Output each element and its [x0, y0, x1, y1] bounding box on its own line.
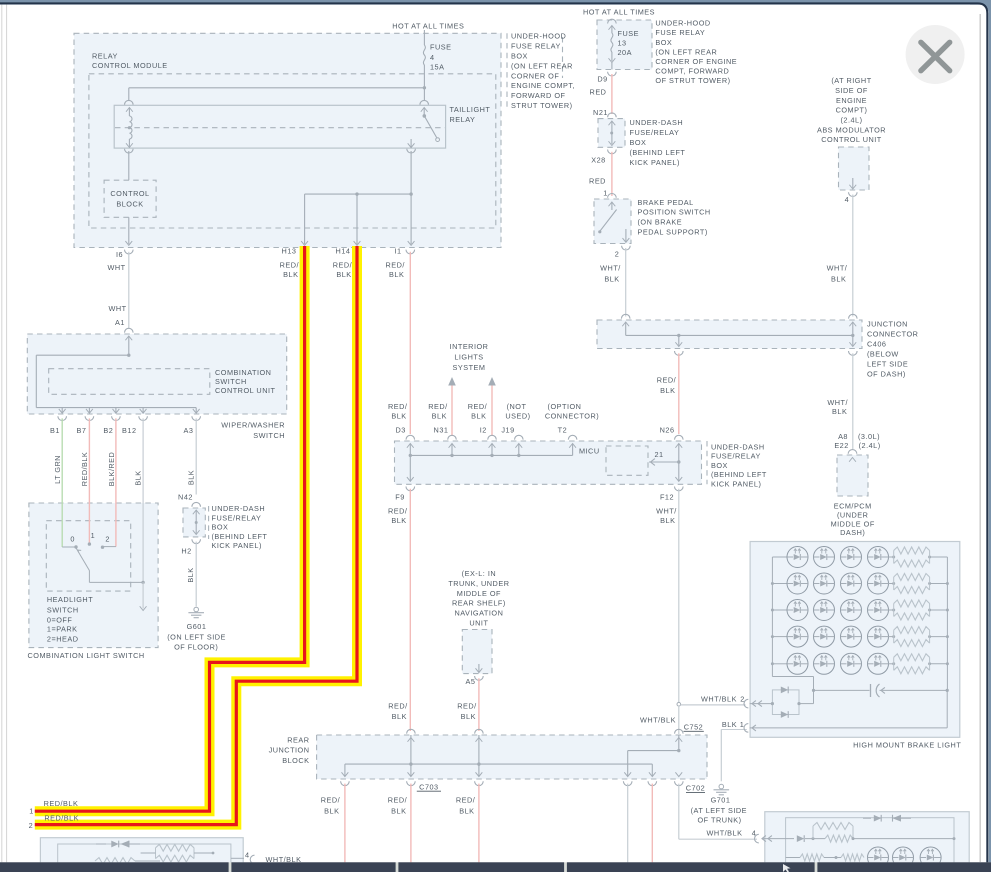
connector arc RJB left top — [407, 729, 416, 733]
svg-text:ENGINE COMPT,: ENGINE COMPT, — [511, 81, 575, 90]
pin label B12 — [122, 426, 136, 435]
label LT GRN — [53, 455, 62, 484]
entry 1 wiring — [721, 690, 947, 729]
junction dot RJB 1 — [409, 762, 412, 765]
svg-text:RED/: RED/ — [388, 702, 408, 711]
svg-text:REAR: REAR — [287, 736, 309, 745]
svg-text:J19: J19 — [501, 426, 514, 435]
label WHT/BLK 2 — [701, 695, 745, 704]
relay contact arm — [421, 108, 440, 142]
wire WHT/BLK ABS-C406 — [852, 195, 854, 317]
label INTERIOR LIGHTS SYSTEM — [450, 342, 489, 372]
wire WHT/BLK C406-ECM — [852, 353, 854, 449]
svg-text:(ON LEFT REAR: (ON LEFT REAR — [511, 61, 573, 70]
svg-text:1=PARK: 1=PARK — [47, 625, 78, 634]
svg-text:2: 2 — [615, 250, 620, 259]
label UNDER-HOOD FUSE RELAY BOX (left) — [511, 32, 575, 110]
pin label N42 — [178, 493, 193, 502]
label WHT (above A1) — [108, 304, 126, 313]
top background strip — [0, 0, 991, 5]
svg-text:WHT: WHT — [107, 263, 125, 272]
svg-text:CONTROL UNIT: CONTROL UNIT — [215, 386, 275, 395]
LED matrix rows — [772, 547, 893, 675]
svg-text:CORNER OF: CORNER OF — [511, 71, 559, 80]
label RED/BLK (H14) — [333, 261, 353, 279]
svg-text:H13: H13 — [282, 247, 297, 256]
svg-text:RED/: RED/ — [388, 506, 408, 515]
svg-text:13: 13 — [618, 39, 627, 48]
fuse F4 symbol — [423, 45, 425, 65]
label ECM/PCM (UNDER MIDDLE OF DASH) — [831, 502, 875, 538]
label WHT/BLK (ECM wire) — [827, 398, 848, 416]
label RED/BLK (F9) — [388, 506, 408, 525]
connector arc A1 — [125, 328, 134, 332]
svg-text:(ON BRAKE: (ON BRAKE — [638, 218, 683, 227]
ECM/PCM dashed box — [837, 455, 868, 496]
connector arc RJB bottom d — [623, 781, 632, 785]
connector arc H14 — [353, 250, 362, 254]
label G701 — [691, 796, 747, 825]
svg-text:BLK: BLK — [336, 270, 351, 279]
wire WHT/BLK 2 horizontal — [681, 704, 746, 706]
svg-text:FUSE/RELAY: FUSE/RELAY — [212, 513, 262, 522]
right background strip — [970, 0, 991, 872]
connector arc C406 N26 bottom — [675, 351, 684, 355]
wire BLK A3 — [195, 418, 197, 494]
entry 2 arrows — [752, 701, 762, 707]
junction dots interior bus — [409, 454, 521, 457]
pin label H13 — [282, 247, 297, 256]
svg-text:HEADLIGHT: HEADLIGHT — [47, 595, 93, 604]
label BRAKE PEDAL POSITION SWITCH — [638, 198, 711, 237]
label G601 — [167, 622, 226, 652]
pin label T2 — [558, 426, 568, 435]
tail lamp inner box — [58, 844, 231, 872]
svg-text:NAVIGATION: NAVIGATION — [454, 609, 503, 618]
svg-text:BLK: BLK — [391, 806, 406, 815]
svg-text:RELAY: RELAY — [450, 115, 476, 124]
wire coil to control block — [128, 151, 130, 180]
wire H13 inside module — [301, 194, 308, 245]
headlight switch wire 0 bend — [62, 546, 76, 548]
svg-text:BLK: BLK — [283, 270, 298, 279]
C406 N26 drop — [675, 335, 682, 346]
wire fuse to relay contact — [423, 88, 425, 100]
under-dash interior label separator — [706, 441, 708, 484]
label HIGH MOUNT BRAKE LIGHT — [853, 741, 961, 750]
pin label N21 — [593, 108, 608, 117]
headlight switch output wiring — [89, 581, 144, 584]
taillight relay box — [114, 105, 445, 148]
svg-text:C703: C703 — [419, 782, 438, 791]
svg-text:FUSE: FUSE — [430, 43, 451, 52]
A1 entry wire — [125, 336, 132, 355]
connector arc X28 — [608, 150, 617, 154]
svg-text:(3.0L): (3.0L) — [858, 432, 880, 441]
wire WHT/BLK brake-C406 — [625, 248, 627, 317]
tail lamp exit 4 — [231, 855, 255, 864]
connector arc brake switch pin2 — [622, 246, 631, 250]
svg-text:H2: H2 — [181, 546, 191, 555]
svg-text:(2.4L): (2.4L) — [859, 441, 881, 450]
connector arc RJB mid top — [475, 729, 484, 733]
rear junction block dashed box — [317, 735, 707, 779]
svg-text:LEFT SIDE: LEFT SIDE — [867, 360, 908, 369]
tail lamp BR row2 — [786, 854, 864, 861]
svg-text:RED/: RED/ — [428, 402, 448, 411]
headlight switch inner dashed box — [46, 521, 130, 591]
label RED/BLK (N31) — [428, 402, 448, 421]
label UNDER-DASH FUSE/RELAY BOX (N21) — [630, 118, 686, 167]
highlighted wire H13 (yellow) — [35, 246, 305, 811]
svg-text:BOX: BOX — [630, 138, 647, 147]
fuse F13 wire+symbol — [608, 19, 617, 69]
svg-text:LT GRN: LT GRN — [53, 455, 62, 484]
under-dash fuse relay box N21 dashed box — [598, 119, 625, 148]
label WHT/BLK (ABS) — [827, 264, 848, 284]
svg-text:BLK: BLK — [134, 470, 143, 485]
label HOT AT ALL TIMES (left) — [392, 21, 464, 30]
svg-text:RED: RED — [589, 177, 606, 186]
svg-text:CONTROL MODULE: CONTROL MODULE — [92, 61, 168, 70]
wire RED/BLK RJB-c down — [478, 784, 480, 863]
label RED/BLK (I1) — [385, 261, 405, 279]
under-hood fuse box F13 dashed box — [597, 20, 652, 70]
svg-text:RED/: RED/ — [457, 702, 477, 711]
connector arc B12 — [139, 416, 148, 420]
svg-text:WIPER/WASHER: WIPER/WASHER — [221, 420, 285, 429]
RJB wire mid through — [478, 735, 480, 776]
svg-text:WHT/: WHT/ — [600, 264, 621, 273]
svg-text:(BEHIND LEFT: (BEHIND LEFT — [711, 470, 767, 479]
highlighted wire H14 (yellow) — [35, 246, 357, 825]
junction dot C406 right — [851, 334, 854, 337]
wire RED/BLK RJB-b down — [410, 784, 412, 863]
label COMBINATION SWITCH CONTROL UNIT — [215, 368, 275, 395]
headlight switch wire 2 bend — [104, 546, 116, 548]
combination light switch outer dashed box — [29, 503, 158, 648]
pin label 4 (ABS) — [845, 195, 850, 204]
connector arc RJB bottom b — [407, 781, 416, 785]
svg-text:1: 1 — [603, 188, 608, 197]
svg-text:BLK: BLK — [391, 516, 406, 525]
pin label D9 — [597, 75, 607, 84]
diode bridge bottom diode — [781, 711, 788, 718]
svg-text:CONNECTOR: CONNECTOR — [867, 330, 918, 339]
wire WHT I6-A1 — [128, 252, 130, 329]
label BLK (A3 vertical) — [187, 470, 196, 485]
left page edge lines — [2, 5, 7, 872]
label RED (X28) — [589, 177, 606, 186]
label WHT (I6 wire) — [107, 263, 125, 272]
svg-text:UNDER-HOOD: UNDER-HOOD — [655, 19, 710, 28]
svg-text:BLK: BLK — [660, 516, 675, 525]
control block dashed box — [104, 180, 156, 217]
svg-text:ABS MODULATOR: ABS MODULATOR — [817, 125, 886, 134]
wire I1 inside module — [408, 194, 415, 245]
svg-text:WHT/: WHT/ — [827, 264, 848, 273]
svg-text:BLK/RED: BLK/RED — [107, 452, 116, 486]
connector arc entry2 — [744, 699, 748, 708]
svg-text:I6: I6 — [116, 250, 123, 259]
under-dash N42 wire — [193, 510, 200, 535]
brake pedal position switch dashed box — [594, 199, 631, 244]
svg-text:D9: D9 — [597, 75, 607, 84]
C406 right through — [849, 322, 856, 347]
svg-text:RED/BLK: RED/BLK — [44, 799, 79, 808]
label BLK 1 — [722, 720, 744, 729]
svg-text:(2.4L): (2.4L) — [840, 116, 862, 125]
svg-text:B12: B12 — [122, 426, 136, 435]
svg-text:BLK: BLK — [459, 806, 474, 815]
C406 internal bus — [626, 334, 853, 336]
svg-text:WHT/: WHT/ — [656, 506, 677, 515]
wire RED D9-N21 — [611, 74, 613, 114]
mouse cursor — [783, 864, 791, 872]
connector arc RJB bottom C702 — [675, 781, 684, 785]
pin label I2 — [480, 426, 487, 435]
svg-text:LIGHTS: LIGHTS — [454, 353, 483, 362]
svg-text:A8: A8 — [838, 432, 848, 441]
label BLK (H2 vertical) — [186, 567, 195, 582]
svg-text:N21: N21 — [593, 108, 608, 117]
pin label B1 — [50, 426, 60, 435]
connector arc C752 — [675, 729, 684, 733]
svg-text:KICK PANEL): KICK PANEL) — [711, 479, 761, 488]
combination switch outer dashed box — [27, 334, 286, 414]
wire D3-F9 through box — [407, 455, 414, 481]
svg-text:1: 1 — [29, 807, 34, 816]
ABS wire pin4 — [849, 178, 856, 189]
label MICU — [579, 447, 600, 456]
connector arc contact top — [420, 100, 429, 104]
svg-text:0=OFF: 0=OFF — [47, 615, 72, 624]
svg-text:I1: I1 — [394, 247, 401, 256]
pin label B7 — [77, 426, 87, 435]
capacitor line — [814, 684, 949, 697]
wire RED RJB-e down — [651, 784, 653, 863]
tail lamp box (bottom-left) — [40, 838, 243, 872]
brake pedal switch contacts — [598, 202, 629, 242]
comb switch stub B12 — [140, 408, 147, 414]
svg-text:OF TRUNK): OF TRUNK) — [697, 816, 741, 825]
pin label X28 — [591, 156, 605, 165]
wire RED X28-1 — [611, 152, 613, 196]
wire BLK H2-G601 — [195, 542, 197, 607]
svg-text:BLK: BLK — [604, 274, 619, 283]
pin label I6 — [116, 250, 123, 259]
connector arc H2 — [192, 539, 201, 543]
connector arc B2 — [112, 416, 121, 420]
svg-text:G601: G601 — [187, 622, 207, 631]
svg-text:SYSTEM: SYSTEM — [452, 363, 485, 372]
label HEADLIGHT SWITCH legend — [47, 595, 93, 643]
navigation unit pin wire — [476, 664, 483, 673]
RJB entry arrows — [408, 738, 683, 742]
headlight switch contact 0 — [74, 545, 77, 548]
entry 2 wiring — [750, 690, 814, 705]
label ABS MODULATOR CONTROL UNIT — [817, 76, 886, 144]
label UNDER-DASH FUSE/RELAY BOX (N42) — [212, 504, 268, 550]
svg-text:T2: T2 — [558, 426, 568, 435]
RJB wire left through — [410, 735, 412, 776]
label C752 — [684, 722, 704, 731]
tail lamp BR inner box — [786, 818, 954, 872]
svg-text:BOX: BOX — [655, 38, 672, 47]
connector arc N21 — [608, 113, 617, 117]
svg-text:RED/: RED/ — [456, 795, 476, 804]
svg-text:MIDDLE OF: MIDDLE OF — [831, 519, 875, 528]
svg-text:FUSE/RELAY: FUSE/RELAY — [711, 452, 761, 461]
pin label 4 (tail lamp) — [245, 850, 250, 859]
connector arc A3 — [192, 416, 201, 420]
svg-text:C752: C752 — [684, 722, 703, 731]
svg-text:HOT AT ALL TIMES: HOT AT ALL TIMES — [583, 8, 655, 17]
label WHT/BLK (tail lamp) — [266, 855, 302, 864]
wire BLK/RED B2 — [115, 418, 117, 546]
junction dot I1 bus — [409, 192, 412, 195]
svg-text:N26: N26 — [660, 425, 675, 434]
svg-text:(BEHIND LEFT: (BEHIND LEFT — [212, 532, 268, 541]
svg-text:15A: 15A — [430, 62, 444, 71]
wire WHT/BLK F12 down — [678, 489, 680, 703]
svg-text:OF DASH): OF DASH) — [867, 370, 906, 379]
svg-text:BLK: BLK — [324, 806, 339, 815]
combination switch control unit dashed box — [49, 369, 210, 395]
label BLK (B12 vertical) — [134, 470, 143, 485]
under-dash interior entries — [407, 444, 576, 456]
svg-text:COMBINATION LIGHT SWITCH: COMBINATION LIGHT SWITCH — [28, 651, 145, 660]
svg-text:UNIT: UNIT — [469, 619, 488, 628]
svg-text:D3: D3 — [396, 426, 406, 435]
pin label 1 (brake switch) — [603, 188, 608, 197]
svg-text:SWITCH: SWITCH — [47, 606, 79, 615]
svg-text:BLK: BLK — [432, 412, 447, 421]
label UNDER-DASH FUSE/RELAY BOX (interior) — [711, 443, 767, 489]
wire RED/BLK F9 down — [409, 489, 411, 731]
ground G701 wire — [720, 730, 722, 782]
svg-text:HIGH MOUNT BRAKE LIGHT: HIGH MOUNT BRAKE LIGHT — [853, 741, 961, 750]
under-dash N42 label separator — [208, 506, 210, 539]
svg-text:WHT: WHT — [108, 304, 126, 313]
label FUSE 13 20A — [618, 29, 639, 57]
pin label I1 — [394, 247, 401, 256]
svg-text:POSITION SWITCH: POSITION SWITCH — [638, 208, 711, 217]
label (NOT USED) — [505, 402, 530, 421]
pin label J19 — [501, 426, 514, 435]
junction dot A1 — [127, 354, 130, 357]
connector arc entry1 — [744, 724, 748, 733]
RJB exit arrows — [342, 772, 683, 776]
svg-text:B2: B2 — [103, 426, 113, 435]
label RED/BLK (above RJB left) — [388, 702, 408, 721]
pin label N31 — [434, 426, 449, 435]
wire RED/BLK I1-D3 — [409, 252, 411, 434]
svg-text:JUNCTION: JUNCTION — [269, 746, 310, 755]
headlight switch lever — [76, 548, 89, 583]
connector arc T2 top — [568, 435, 577, 439]
junction dot fuse bus — [423, 86, 426, 89]
junction dot C406 N26 — [677, 334, 680, 337]
label HOT AT ALL TIMES (middle) — [583, 8, 655, 17]
svg-text:COMBINATION: COMBINATION — [215, 368, 271, 377]
svg-text:BLK: BLK — [392, 712, 407, 721]
svg-text:BOX: BOX — [511, 52, 528, 61]
svg-text:BLK: BLK — [186, 567, 195, 582]
svg-text:A1: A1 — [115, 318, 125, 327]
connector arc brake switch pin1 — [608, 193, 617, 197]
MICU dashed box — [606, 446, 648, 475]
pin label A5 — [466, 677, 476, 686]
connector arc ECM top — [848, 450, 857, 454]
connector arc N42 — [192, 502, 201, 506]
headlight switch contact 2 — [101, 546, 104, 549]
svg-text:SWITCH: SWITCH — [253, 431, 285, 440]
tail lamp BR top diodes — [863, 815, 911, 822]
comb switch stub B2 — [113, 408, 120, 414]
connector arc C406 left top — [621, 314, 630, 318]
label C703 — [417, 782, 441, 791]
connector arc F9 — [406, 487, 415, 491]
pin label A1 — [115, 318, 125, 327]
highlighted wire H13 (red) — [35, 246, 305, 811]
close button circle — [906, 25, 965, 84]
pin label F12 — [660, 493, 674, 502]
svg-text:1: 1 — [740, 720, 745, 729]
svg-text:(BEHIND LEFT: (BEHIND LEFT — [630, 148, 686, 157]
connector arc D9 — [608, 72, 617, 76]
under-dash fuse relay box (interior) dashed box — [395, 441, 702, 484]
under-dash fuse relay box N42 dashed box — [183, 508, 205, 537]
svg-text:WHT/: WHT/ — [827, 398, 848, 407]
label UNDER-HOOD FUSE RELAY BOX (F13) — [655, 19, 737, 86]
comb switch stub A3 — [193, 408, 200, 414]
tail lamp resistor pair — [141, 844, 215, 862]
svg-text:21: 21 — [654, 450, 663, 459]
svg-text:RED/BLK: RED/BLK — [80, 452, 89, 486]
under-dash interior bus — [410, 454, 572, 456]
svg-text:RED/: RED/ — [321, 795, 341, 804]
svg-text:CORNER OF ENGINE: CORNER OF ENGINE — [655, 57, 737, 66]
wire control block to I6 — [125, 217, 132, 245]
svg-text:(ON LEFT SIDE: (ON LEFT SIDE — [167, 632, 226, 641]
svg-text:KICK PANEL): KICK PANEL) — [630, 158, 680, 167]
connector arc RJB bottom a — [341, 781, 350, 785]
svg-text:UNDER-DASH: UNDER-DASH — [630, 118, 684, 127]
label WHT/BLK (C752) — [640, 715, 676, 724]
close button X — [921, 42, 950, 70]
label RED/BLK (below RJB b) — [388, 795, 408, 815]
RJB C752 branch — [628, 735, 681, 776]
label NAVIGATION UNIT — [448, 569, 509, 628]
svg-text:MICU: MICU — [579, 447, 600, 456]
svg-text:4: 4 — [845, 195, 850, 204]
svg-text:BLOCK: BLOCK — [282, 756, 309, 765]
svg-text:SIDE OF: SIDE OF — [835, 86, 868, 95]
connector arc C406 right bottom — [849, 351, 858, 355]
relay control module outer dashed box — [74, 33, 501, 247]
label WHT/BLK (F12) — [656, 506, 677, 525]
wire bus fuse to coil/contact — [129, 88, 425, 100]
svg-text:4: 4 — [245, 850, 250, 859]
pin 21 arrow — [649, 459, 681, 466]
LED left bus — [771, 557, 774, 677]
high mount bottom path — [772, 677, 815, 693]
connector arc I2 top — [488, 435, 497, 439]
svg-text:2=HEAD: 2=HEAD — [47, 635, 79, 644]
svg-text:UNDER-DASH: UNDER-DASH — [212, 504, 266, 513]
svg-text:E22: E22 — [834, 441, 848, 450]
